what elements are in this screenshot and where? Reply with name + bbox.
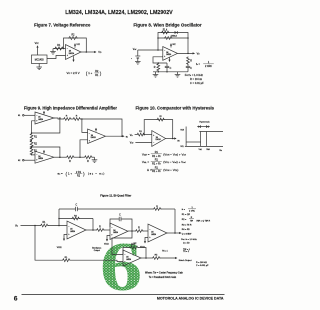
input e1 terminal — [18, 114, 24, 117]
Vref source battery — [131, 50, 140, 62]
svg-text:MOTOROLA ANALOG IC DEVICE DATA: MOTOROLA ANALOG IC DEVICE DATA — [157, 296, 224, 300]
noninverting input wire — [153, 57, 167, 64]
svg-text:Vin: Vin — [130, 135, 133, 137]
svg-text:1/4: 1/4 — [70, 229, 72, 231]
resistor 51 k — [161, 29, 169, 34]
inverting input wire — [53, 48, 66, 50]
op-amp U1 1/4 LM324 — [66, 45, 82, 60]
svg-text:Q = fo/BW: Q = fo/BW — [182, 233, 193, 235]
ground left of bottom rail — [153, 72, 159, 77]
svg-text:1/4: 1/4 — [91, 135, 93, 137]
resistor R top first — [63, 116, 71, 121]
Q formula right — [197, 220, 211, 222]
lower feedback tap wire — [31, 146, 61, 158]
A2 integrator capacitor loop — [110, 219, 132, 231]
svg-text:6: 6 — [14, 296, 18, 303]
output node — [187, 53, 189, 55]
node at inverting input — [63, 48, 65, 50]
resistor R between A2 and A3 — [135, 228, 143, 233]
svg-text:LM324: LM324 — [69, 53, 75, 55]
svg-text:Output: Output — [94, 249, 100, 252]
resistor R on bottom rail — [62, 257, 70, 262]
svg-text:LM324: LM324 — [113, 232, 118, 234]
figure 7 formula — [67, 70, 102, 77]
wire top node to A3 inverting input — [82, 119, 88, 132]
feedback resistor R near A3 — [153, 206, 161, 211]
svg-text:1 +: 1 + — [88, 71, 92, 75]
Vcc supply arrow wire — [36, 45, 38, 55]
graph VOL level label — [180, 146, 183, 148]
feedback wire loop — [144, 120, 173, 140]
svg-text:1/4: 1/4 — [38, 156, 40, 158]
A1 inverting input wire — [32, 121, 35, 133]
svg-text:VCC/2: VCC/2 — [57, 247, 62, 249]
A2 output wire — [128, 230, 135, 232]
hysteresis label — [199, 121, 210, 124]
input resistor R1 — [40, 222, 48, 227]
right feedback vertical wire — [187, 37, 189, 53]
op-amp A3 1/4 LM324 — [88, 129, 106, 144]
VOL level line — [186, 141, 201, 143]
A4 feedback resistor R — [130, 244, 138, 249]
figure 9 gain formula — [58, 171, 105, 178]
Vcc supply label — [35, 42, 40, 45]
feedback rail wire — [59, 208, 175, 210]
wien shunt resistor R — [154, 63, 160, 71]
svg-text:LM324, LM324A, LM224, LM2902,: LM324, LM324A, LM224, LM2902, LM2902V — [65, 10, 173, 16]
graph VOH level label — [180, 129, 183, 131]
output wire Vo — [81, 51, 102, 54]
resistor R bottom first — [66, 156, 74, 163]
wire bottom node to A3 noninverting input — [80, 140, 88, 157]
wien series resistor R — [187, 57, 193, 65]
resistor R between A1 and A2 — [96, 227, 104, 232]
svg-text:Notch Output: Notch Output — [179, 259, 192, 262]
hysteresis width arrows — [197, 125, 210, 128]
svg-text:VCC/2: VCC/2 — [104, 244, 109, 246]
resistor R2 — [30, 140, 37, 148]
wien series capacitor C — [186, 65, 192, 72]
ground under Vref source — [135, 61, 141, 63]
hysteresis transition left — [200, 132, 202, 147]
op-amp Vee pin — [168, 57, 170, 62]
svg-text:VCC: VCC — [172, 44, 175, 46]
footer rule — [22, 294, 225, 296]
wire R1 to noninverting input — [143, 134, 151, 136]
A1 output wire — [54, 118, 63, 119]
svg-text:TBP: TBP — [190, 220, 193, 222]
input wire — [21, 225, 41, 227]
resistor R1 upper — [30, 133, 37, 141]
svg-text:Q = 50: Q = 50 — [183, 242, 190, 244]
svg-text:For: fo = 1.0 kHz: For: fo = 1.0 kHz — [181, 239, 197, 241]
op-amp A4 1/4 LM324 — [123, 250, 141, 266]
equation VinL — [142, 159, 186, 166]
svg-text:fo =: fo = — [196, 62, 200, 66]
Vin input label — [130, 135, 133, 137]
hysteresis transition right — [205, 132, 207, 147]
diode 1N914 — [171, 31, 178, 37]
A4 Vcc pin — [131, 243, 137, 246]
top node — [71, 118, 83, 120]
resistor R2 over A1 — [72, 215, 80, 220]
op-amp A2 1/4 LM324 — [110, 223, 128, 240]
svg-text:TN = 1: TN = 1 — [183, 251, 190, 253]
svg-text:TN = Passband Notch Gain: TN = Passband Notch Gain — [149, 276, 177, 279]
svg-text:VinL =: VinL = — [142, 160, 150, 164]
svg-text:R3 = TN R: R3 = TN R — [182, 224, 192, 226]
svg-text:1/4: 1/4 — [38, 117, 40, 119]
svg-text:R1 + Rf: R1 + Rf — [152, 170, 161, 173]
ground under MC1403 — [36, 64, 42, 70]
output node — [86, 51, 88, 53]
wire to A3 inverting input — [143, 230, 148, 232]
wien shunt capacitor C — [165, 63, 172, 72]
wire Vref to inverting input — [135, 142, 151, 144]
op-amp A1 1/4 LM324 — [67, 221, 86, 239]
svg-text:1/4: 1/4 — [113, 230, 115, 232]
oscillator frequency formula — [196, 61, 214, 68]
svg-text:1/4: 1/4 — [156, 137, 158, 139]
bottom feedback rail wire — [35, 226, 123, 262]
svg-text:LM324: LM324 — [91, 137, 96, 139]
svg-text:VinL: VinL — [199, 149, 203, 151]
svg-text:RBP = Q TBP R: RBP = Q TBP R — [197, 220, 211, 222]
svg-text:1 +: 1 + — [68, 172, 72, 176]
svg-text:VCC: VCC — [76, 44, 79, 46]
component values note — [185, 73, 204, 85]
Vref input label — [130, 143, 134, 145]
svg-text:eo =: eo = — [58, 172, 64, 176]
svg-text:TN = 1: TN = 1 — [162, 251, 169, 253]
A1 feedback tap wire — [31, 117, 61, 134]
left feedback vertical wire — [157, 37, 159, 50]
output wire Vo — [178, 52, 201, 55]
VinL axis label — [199, 149, 203, 151]
A2 noninverting bias — [104, 236, 110, 246]
svg-text:+: + — [131, 58, 132, 60]
svg-text:C = 0.01 μF: C = 0.01 μF — [190, 81, 204, 85]
capacitor C over A2 — [119, 215, 121, 222]
component notes column — [181, 207, 209, 267]
A1 noninverting bias — [57, 235, 67, 249]
equation hysteresis H — [147, 166, 178, 173]
op-amp U3 1/4 LM324 — [152, 131, 166, 147]
input e2 terminal — [18, 159, 24, 162]
svg-text:Vref: Vref — [130, 143, 134, 145]
A2 Vcc pin — [43, 150, 45, 154]
bottom rail wire — [153, 71, 188, 73]
svg-text:LM324: LM324 — [166, 54, 171, 56]
A3 noninverting bias — [140, 238, 148, 249]
svg-text:C = 0.001 μF: C = 0.001 μF — [196, 265, 209, 267]
wire e1 to A1 — [24, 114, 35, 116]
feedback loop wire — [64, 38, 87, 52]
summing node wire — [48, 225, 67, 227]
bandpass tap wire to summer — [112, 231, 132, 255]
input resistor R1 — [135, 131, 145, 136]
wire MC1403 output to op-amp noninverting input — [47, 56, 66, 59]
A3 Vcc pin — [95, 128, 97, 132]
svg-text:R2 =: R2 = — [182, 219, 187, 221]
A4 output wire notch — [141, 257, 177, 259]
ground at bottom resistor — [92, 157, 98, 162]
VOH level line — [199, 131, 223, 133]
ground right of bottom rail — [175, 72, 181, 77]
bottom node — [74, 156, 84, 158]
wire to A2 inverting input — [104, 229, 110, 231]
svg-text:2 πRC: 2 πRC — [205, 65, 212, 68]
op-amp A1 1/4 LM324 — [35, 112, 54, 124]
A1 output wire — [86, 229, 96, 231]
svg-text:LM324: LM324 — [38, 158, 43, 160]
A1 integrator capacitor loop — [58, 209, 94, 231]
bandpass output label — [92, 248, 101, 253]
feedback resistor Rf — [157, 116, 165, 121]
svg-text:Figure 8. Wien Bridge Oscillat: Figure 8. Wien Bridge Oscillator — [133, 23, 201, 28]
svg-text:LM324: LM324 — [126, 259, 131, 261]
A2 output node — [131, 230, 133, 232]
A4 feedback loop — [123, 248, 147, 259]
svg-text:For fo = 1.0 kHz: For fo = 1.0 kHz — [185, 73, 204, 77]
notch output label — [179, 259, 192, 262]
op-amp A2 1/4 LM324 — [35, 151, 54, 163]
svg-text:Vin: Vin — [219, 150, 222, 152]
green stamp digit 6 — [100, 228, 142, 305]
op-amp Vcc pin — [74, 43, 80, 48]
A3 output wire bandpass — [167, 232, 182, 234]
VinH axis label — [206, 149, 210, 151]
output wire eo — [106, 135, 129, 138]
svg-text:Figure 10. Comparator with Hys: Figure 10. Comparator with Hysteresis — [136, 106, 215, 111]
svg-text:R = 16 kΩ: R = 16 kΩ — [190, 77, 202, 81]
graph vertical axis — [185, 127, 187, 147]
svg-text:R = 160 kΩ: R = 160 kΩ — [196, 261, 207, 264]
svg-text:VinH: VinH — [206, 149, 210, 151]
svg-text:LM324: LM324 — [70, 231, 75, 233]
svg-text:VOL: VOL — [180, 146, 183, 148]
svg-text:LM324: LM324 — [38, 119, 43, 121]
op-amp Vcc pin — [170, 43, 176, 47]
upper feedback branch wire — [158, 33, 188, 39]
lower feedback branch wire — [158, 37, 188, 39]
where note — [145, 271, 184, 279]
op-amp A3 1/4 LM324 — [148, 224, 167, 242]
svg-text:LM324: LM324 — [156, 139, 161, 141]
A3 feedback wire — [81, 119, 123, 137]
svg-text:Hysteresis: Hysteresis — [199, 121, 210, 124]
svg-text:Where: TBP = Center Frequency: Where: TBP = Center Frequency Gain — [145, 271, 184, 274]
capacitor C over A1 — [76, 205, 78, 212]
svg-text:R1 = QR: R1 = QR — [182, 214, 191, 216]
svg-text:R4 = R5: R4 = R5 — [182, 229, 191, 231]
graph horizontal axis — [185, 145, 223, 147]
equation VinH — [142, 151, 186, 158]
A2 output wire — [54, 156, 66, 158]
svg-text:2 πRC: 2 πRC — [189, 211, 195, 213]
op-amp Vee pin — [72, 56, 74, 62]
A2 inverting input wire — [32, 153, 35, 156]
resistor R1 — [54, 45, 64, 50]
Vin input label — [15, 225, 18, 228]
ground at R1 — [50, 49, 56, 55]
notch summing resistor R5 — [152, 254, 160, 259]
Vin axis label — [219, 150, 222, 152]
resistor R1 lower — [30, 147, 37, 155]
svg-text:R1 + Rf: R1 + Rf — [152, 162, 161, 165]
svg-text:LM324: LM324 — [151, 234, 156, 236]
Vref wire to inverting input — [138, 49, 163, 51]
svg-text:Figure 7. Voltage Reference: Figure 7. Voltage Reference — [34, 23, 91, 28]
label TN — [162, 251, 169, 253]
svg-text:(e2 − e1): (e2 − e1) — [88, 172, 105, 176]
Vref input label — [133, 48, 137, 51]
svg-text:1/4: 1/4 — [151, 232, 153, 234]
feedback resistor on lower branch — [164, 37, 172, 40]
svg-text:Figure 11. Bi-Quad Filter: Figure 11. Bi-Quad Filter — [100, 193, 131, 197]
resistor R to ground — [84, 156, 92, 163]
svg-text:R1 + Rf: R1 + Rf — [152, 155, 161, 158]
voltage reference IC MC1403 — [32, 55, 48, 64]
op-amp U2 1/4 LM324 — [163, 47, 178, 61]
A3 feedback vertical wire — [174, 209, 176, 234]
comparator output wire — [166, 137, 181, 142]
resistor R top feedback — [73, 116, 81, 121]
A1 Vcc pin — [43, 111, 45, 115]
feedback resistor R2 — [68, 34, 78, 39]
svg-text:MC1403: MC1403 — [35, 60, 45, 62]
wire e2 to A2 — [24, 159, 35, 161]
svg-text:Figure 9. High Impedance Diffe: Figure 9. High Impedance Differential Am… — [24, 106, 118, 111]
svg-text:1/4: 1/4 — [126, 257, 128, 259]
svg-text:VOH: VOH — [180, 129, 183, 131]
